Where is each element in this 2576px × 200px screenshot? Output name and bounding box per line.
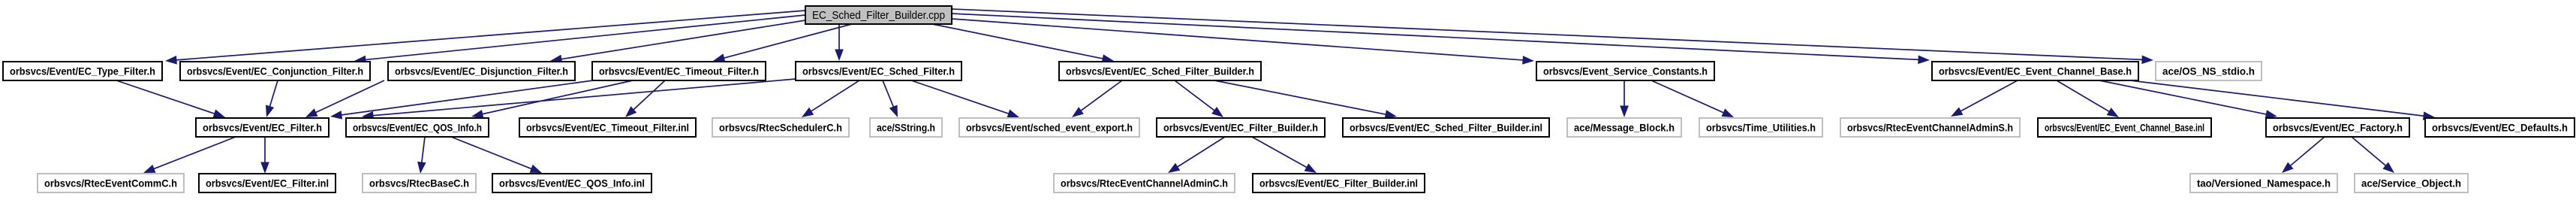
node orbsvcs/Event/EC_Type_Filter.h xyxy=(3,62,162,80)
wire edge EC_Sched_Filter.h->SString.h xyxy=(883,80,898,117)
node ace/OS_NS_stdio.h xyxy=(2156,62,2262,80)
node orbsvcs/Event/EC_Sched_Filter_Builder.h xyxy=(1059,62,1261,80)
wire edge root->EC_Sched_Filter_Builder.h xyxy=(932,24,1114,63)
wire edge EC_Type_Filter.h->EC_Filter.h xyxy=(116,80,225,118)
node orbsvcs/Event/EC_Event_Channel_Base.inl xyxy=(2038,118,2211,137)
wire edge Event_Service_Constants.h->Time_Utilities.h xyxy=(1651,80,1734,117)
node orbsvcs/RtecSchedulerC.h xyxy=(712,118,849,137)
svg-text:orbsvcs/Event/EC_Filter_Builde: orbsvcs/Event/EC_Filter_Builder.inl xyxy=(1259,177,1418,189)
svg-text:orbsvcs/Event/EC_QOS_Info.h: orbsvcs/Event/EC_QOS_Info.h xyxy=(353,122,482,133)
svg-text:orbsvcs/Event/EC_Timeout_Filte: orbsvcs/Event/EC_Timeout_Filter.h xyxy=(599,65,759,77)
svg-text:orbsvcs/Event/EC_QOS_Info.inl: orbsvcs/Event/EC_QOS_Info.inl xyxy=(499,177,645,189)
wire edge EC_Sched_Filter.h->RtecSchedulerC.h xyxy=(802,80,859,117)
node orbsvcs/Event/EC_Filter_Builder.h xyxy=(1157,118,1325,137)
svg-text:ace/Message_Block.h: ace/Message_Block.h xyxy=(1574,122,1675,133)
node orbsvcs/Event/EC_Filter.inl xyxy=(199,174,336,192)
svg-text:orbsvcs/Time_Utilities.h: orbsvcs/Time_Utilities.h xyxy=(1706,122,1816,133)
svg-text:orbsvcs/Event/EC_Sched_Filter_: orbsvcs/Event/EC_Sched_Filter_Builder.in… xyxy=(1350,122,1542,133)
wire edge Event_Service_Constants.h->Message_Block.h xyxy=(1620,80,1629,117)
svg-text:orbsvcs/Event/EC_Filter.h: orbsvcs/Event/EC_Filter.h xyxy=(203,122,322,133)
wire edge EC_Timeout_Filter.h->EC_Filter.h xyxy=(330,80,593,120)
svg-text:orbsvcs/Event/EC_Conjunction_F: orbsvcs/Event/EC_Conjunction_Filter.h xyxy=(187,65,363,77)
svg-text:orbsvcs/Event/EC_Type_Filter.h: orbsvcs/Event/EC_Type_Filter.h xyxy=(10,65,155,77)
wire edge EC_Filter_Builder.h->RtecEventChannelAdminC.h xyxy=(1168,137,1225,173)
svg-text:orbsvcs/Event/EC_Filter_Builde: orbsvcs/Event/EC_Filter_Builder.h xyxy=(1163,122,1318,133)
wire edge root->EC_Type_Filter.h xyxy=(165,11,805,65)
node ace/Service_Object.h xyxy=(2355,174,2468,192)
wire edge EC_Sched_Filter_Builder.h->EC_Sched_Filter_Builder.inl xyxy=(1214,80,1397,119)
node orbsvcs/Event/EC_Sched_Filter.h xyxy=(796,62,961,80)
svg-text:orbsvcs/Event/sched_event_expo: orbsvcs/Event/sched_event_export.h xyxy=(966,122,1133,133)
node orbsvcs/Event/EC_QOS_Info.h xyxy=(346,118,489,137)
svg-text:orbsvcs/Event/EC_Disjunction_F: orbsvcs/Event/EC_Disjunction_Filter.h xyxy=(395,65,568,77)
svg-text:orbsvcs/RtecBaseC.h: orbsvcs/RtecBaseC.h xyxy=(369,177,469,189)
node orbsvcs/Event/EC_QOS_Info.inl xyxy=(492,174,652,192)
node orbsvcs/RtecBaseC.h xyxy=(363,174,476,192)
svg-text:orbsvcs/Event/EC_Sched_Filter_: orbsvcs/Event/EC_Sched_Filter_Builder.h xyxy=(1066,65,1254,77)
wire edge EC_Timeout_Filter.h->EC_Timeout_Filter.inl xyxy=(625,80,665,117)
node orbsvcs/RtecEventCommC.h xyxy=(38,174,184,192)
wire edge EC_Sched_Filter_Builder.h->sched_event_export.h xyxy=(1072,80,1122,117)
svg-text:orbsvcs/Event/EC_Sched_Filter.: orbsvcs/Event/EC_Sched_Filter.h xyxy=(802,65,955,77)
svg-text:orbsvcs/RtecSchedulerC.h: orbsvcs/RtecSchedulerC.h xyxy=(719,122,842,133)
svg-text:orbsvcs/Event/EC_Filter.inl: orbsvcs/Event/EC_Filter.inl xyxy=(206,177,329,189)
node orbsvcs/Event/EC_Disjunction_Filter.h xyxy=(388,62,575,80)
node tao/Versioned_Namespace.h xyxy=(2190,174,2337,192)
node EC_Sched_Filter_Builder.cpp xyxy=(805,6,952,24)
svg-text:ace/SString.h: ace/SString.h xyxy=(877,122,935,133)
wire edge EC_Disjunction_Filter.h->EC_Filter.h xyxy=(305,80,384,117)
node ace/Message_Block.h xyxy=(1567,118,1681,137)
wire edge EC_Factory.h->Versioned_Namespace.h xyxy=(2282,137,2325,173)
wire edge EC_Filter.h->EC_Filter.inl xyxy=(260,137,269,174)
node orbsvcs/Time_Utilities.h xyxy=(1699,118,1822,137)
node orbsvcs/Event/EC_Defaults.h xyxy=(2425,118,2574,137)
node orbsvcs/Event/EC_Conjunction_Filter.h xyxy=(180,62,370,80)
wire edge EC_QOS_Info.h->RtecBaseC.h xyxy=(417,137,426,174)
wire edge EC_Filter.h->RtecEventCommC.h xyxy=(143,137,236,173)
node orbsvcs/Event/EC_Filter.h xyxy=(196,118,329,137)
svg-text:orbsvcs/RtecEventChannelAdminS: orbsvcs/RtecEventChannelAdminS.h xyxy=(1847,122,2013,133)
node ace/SString.h xyxy=(870,118,942,137)
wire edge EC_Timeout_Filter.h->EC_QOS_Info.h xyxy=(471,80,633,118)
wire edge root->EC_Timeout_Filter.h xyxy=(713,24,852,62)
svg-text:orbsvcs/Event/EC_Factory.h: orbsvcs/Event/EC_Factory.h xyxy=(2273,122,2403,133)
svg-text:ace/OS_NS_stdio.h: ace/OS_NS_stdio.h xyxy=(2162,65,2255,77)
node orbsvcs/Event_Service_Constants.h xyxy=(1536,62,1714,80)
svg-text:orbsvcs/Event/EC_Event_Channel: orbsvcs/Event/EC_Event_Channel_Base.h xyxy=(1939,65,2132,77)
node orbsvcs/Event/EC_Event_Channel_Base.h xyxy=(1932,62,2138,80)
node orbsvcs/Event/sched_event_export.h xyxy=(959,118,1139,137)
svg-text:orbsvcs/Event/EC_Timeout_Filte: orbsvcs/Event/EC_Timeout_Filter.inl xyxy=(526,122,689,133)
wire edge EC_Event_Channel_Base.h->RtecEventChannelAdminS.h xyxy=(1951,80,2018,117)
node orbsvcs/RtecEventChannelAdminC.h xyxy=(1054,174,1235,192)
wire edge EC_Event_Channel_Base.h->EC_Event_Channel_Base.inl xyxy=(2057,80,2119,117)
wire edge EC_Event_Channel_Base.h->EC_Defaults.h xyxy=(2130,80,2435,120)
wire edge EC_Factory.h->Service_Object.h xyxy=(2352,137,2394,173)
svg-text:orbsvcs/Event/EC_Defaults.h: orbsvcs/Event/EC_Defaults.h xyxy=(2432,122,2568,133)
node orbsvcs/Event/EC_Factory.h xyxy=(2266,118,2409,137)
svg-text:tao/Versioned_Namespace.h: tao/Versioned_Namespace.h xyxy=(2197,177,2331,189)
svg-text:orbsvcs/Event_Service_Constant: orbsvcs/Event_Service_Constants.h xyxy=(1543,65,1708,77)
wire edge root->EC_Sched_Filter.h xyxy=(835,24,844,61)
wire edge EC_Sched_Filter_Builder.h->EC_Filter_Builder.h xyxy=(1175,80,1223,117)
wire edge EC_Sched_Filter.h->sched_event_export.h xyxy=(911,80,1019,118)
svg-text:orbsvcs/Event/EC_Event_Channel: orbsvcs/Event/EC_Event_Channel_Base.inl xyxy=(2045,122,2204,133)
wire edge EC_QOS_Info.h->EC_QOS_Info.inl xyxy=(451,137,542,173)
node orbsvcs/Event/EC_Timeout_Filter.inl xyxy=(519,118,696,137)
wire edge root->Event_Service_Constants.h xyxy=(952,19,1534,65)
wire edge EC_Sched_Filter.h->EC_QOS_Info.h xyxy=(362,79,796,120)
svg-text:orbsvcs/RtecEventCommC.h: orbsvcs/RtecEventCommC.h xyxy=(44,177,177,189)
wire edge root->EC_Disjunction_Filter.h xyxy=(550,20,805,63)
node orbsvcs/Event/EC_Sched_Filter_Builder.inl xyxy=(1343,118,1549,137)
svg-text:ace/Service_Object.h: ace/Service_Object.h xyxy=(2361,177,2461,189)
node orbsvcs/Event/EC_Timeout_Filter.h xyxy=(592,62,766,80)
svg-text:EC_Sched_Filter_Builder.cpp: EC_Sched_Filter_Builder.cpp xyxy=(812,10,945,22)
svg-text:orbsvcs/RtecEventChannelAdminC: orbsvcs/RtecEventChannelAdminC.h xyxy=(1061,177,1228,189)
wire edge EC_Filter_Builder.h->EC_Filter_Builder.inl xyxy=(1252,137,1317,173)
wire edge EC_Conjunction_Filter.h->EC_Filter.h xyxy=(266,80,278,117)
wire edge root->EC_Conjunction_Filter.h xyxy=(354,15,805,64)
node orbsvcs/Event/EC_Filter_Builder.inl xyxy=(1253,174,1425,192)
node orbsvcs/RtecEventChannelAdminS.h xyxy=(1840,118,2020,137)
wire edge root->OS_NS_stdio.h xyxy=(952,9,2153,64)
wire edge root->EC_Event_Channel_Base.h xyxy=(952,14,1930,64)
wire edge EC_Event_Channel_Base.h->EC_Factory.h xyxy=(2099,80,2277,119)
